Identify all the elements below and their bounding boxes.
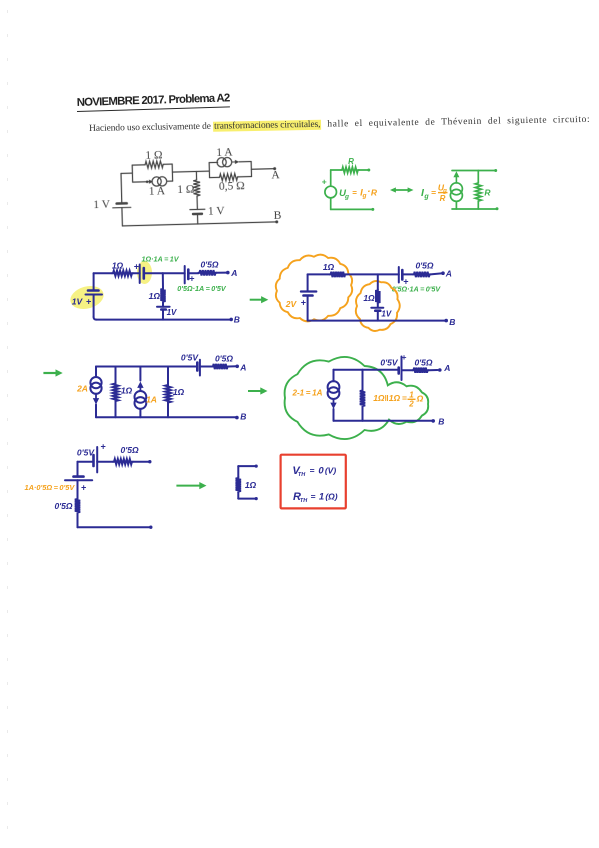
svg-text:=: = bbox=[352, 188, 357, 197]
svg-text:R: R bbox=[371, 187, 378, 197]
svg-text:A: A bbox=[443, 363, 450, 373]
svg-text:1 A: 1 A bbox=[149, 185, 166, 197]
svg-text:0'5Ω: 0'5Ω bbox=[415, 260, 433, 270]
svg-text:TH: TH bbox=[298, 472, 306, 478]
svg-text:+: + bbox=[401, 352, 406, 362]
svg-text:2: 2 bbox=[408, 400, 414, 409]
svg-text:1 V: 1 V bbox=[208, 205, 226, 217]
svg-text:1V: 1V bbox=[167, 308, 177, 317]
svg-text:2A: 2A bbox=[76, 384, 88, 394]
svg-text:1Ω: 1Ω bbox=[149, 291, 161, 301]
svg-text:B: B bbox=[274, 210, 282, 222]
svg-text:B: B bbox=[449, 317, 455, 327]
svg-text:1V: 1V bbox=[381, 309, 391, 318]
svg-text:1Ω: 1Ω bbox=[121, 386, 133, 396]
svg-text:+: + bbox=[86, 297, 92, 307]
svg-text:+: + bbox=[134, 262, 140, 272]
svg-text:1Ω: 1Ω bbox=[323, 262, 335, 272]
svg-text:0'5Ω: 0'5Ω bbox=[414, 358, 432, 368]
svg-text:g: g bbox=[362, 193, 367, 200]
svg-text:2-1 = 1A: 2-1 = 1A bbox=[291, 388, 322, 397]
svg-text:g: g bbox=[344, 193, 349, 200]
svg-text:TH: TH bbox=[300, 498, 308, 504]
svg-text:+: + bbox=[301, 298, 307, 308]
svg-text:B: B bbox=[438, 416, 444, 426]
svg-text:+: + bbox=[403, 276, 409, 286]
svg-text:1Ω: 1Ω bbox=[363, 293, 375, 303]
svg-text:0'5Ω: 0'5Ω bbox=[121, 445, 139, 455]
svg-text:0'5V: 0'5V bbox=[77, 448, 95, 458]
svg-text:R: R bbox=[440, 194, 446, 203]
svg-text:1Ω: 1Ω bbox=[112, 260, 124, 270]
svg-text:1 Ω: 1 Ω bbox=[145, 149, 162, 161]
svg-text:R: R bbox=[348, 157, 354, 166]
svg-text:0'5Ω·1A = 0'5V: 0'5Ω·1A = 0'5V bbox=[392, 285, 442, 294]
svg-text:=: = bbox=[311, 492, 316, 502]
svg-text:0'5Ω: 0'5Ω bbox=[215, 354, 233, 364]
svg-text:0: 0 bbox=[318, 466, 324, 477]
svg-text:g: g bbox=[423, 194, 429, 201]
svg-text:+: + bbox=[322, 177, 327, 187]
svg-text:1Ω‖1Ω =: 1Ω‖1Ω = bbox=[373, 393, 407, 403]
svg-text:1V: 1V bbox=[72, 297, 84, 307]
svg-text:A: A bbox=[239, 363, 246, 373]
svg-text:0'5V: 0'5V bbox=[380, 357, 398, 367]
svg-text:0,5 Ω: 0,5 Ω bbox=[219, 180, 245, 193]
svg-text:A: A bbox=[445, 269, 452, 279]
svg-text:1 Ω: 1 Ω bbox=[177, 184, 194, 196]
svg-text:A: A bbox=[230, 268, 237, 278]
svg-text:0'5V: 0'5V bbox=[181, 352, 199, 362]
svg-text:(V): (V) bbox=[325, 466, 337, 476]
svg-text:1Ω: 1Ω bbox=[173, 387, 185, 397]
svg-text:A: A bbox=[271, 169, 280, 181]
svg-text:0'5Ω: 0'5Ω bbox=[200, 259, 218, 269]
svg-text:B: B bbox=[234, 315, 240, 325]
svg-text:B: B bbox=[240, 412, 246, 422]
svg-text:+: + bbox=[100, 442, 106, 452]
svg-text:1A·0'5Ω = 0'5V: 1A·0'5Ω = 0'5V bbox=[24, 483, 75, 492]
svg-text:=: = bbox=[431, 188, 436, 198]
svg-text:1: 1 bbox=[409, 391, 414, 400]
svg-text:1 A: 1 A bbox=[216, 146, 233, 158]
svg-text:0'5Ω: 0'5Ω bbox=[54, 501, 72, 511]
svg-text:1Ω·1A = 1V: 1Ω·1A = 1V bbox=[141, 254, 179, 263]
svg-text:2V: 2V bbox=[285, 299, 298, 309]
svg-text:1 V: 1 V bbox=[93, 199, 111, 211]
svg-text:=: = bbox=[310, 465, 315, 475]
svg-text:0'5Ω·1A = 0'5V: 0'5Ω·1A = 0'5V bbox=[177, 284, 227, 293]
svg-text:Ω: Ω bbox=[416, 394, 424, 404]
svg-text:+: + bbox=[189, 274, 195, 284]
svg-text:1: 1 bbox=[319, 492, 324, 503]
svg-text:(Ω): (Ω) bbox=[325, 492, 337, 502]
svg-text:1Ω: 1Ω bbox=[245, 480, 257, 490]
svg-text:1A: 1A bbox=[146, 395, 157, 405]
svg-text:R: R bbox=[484, 188, 491, 198]
svg-text:+: + bbox=[81, 483, 87, 493]
